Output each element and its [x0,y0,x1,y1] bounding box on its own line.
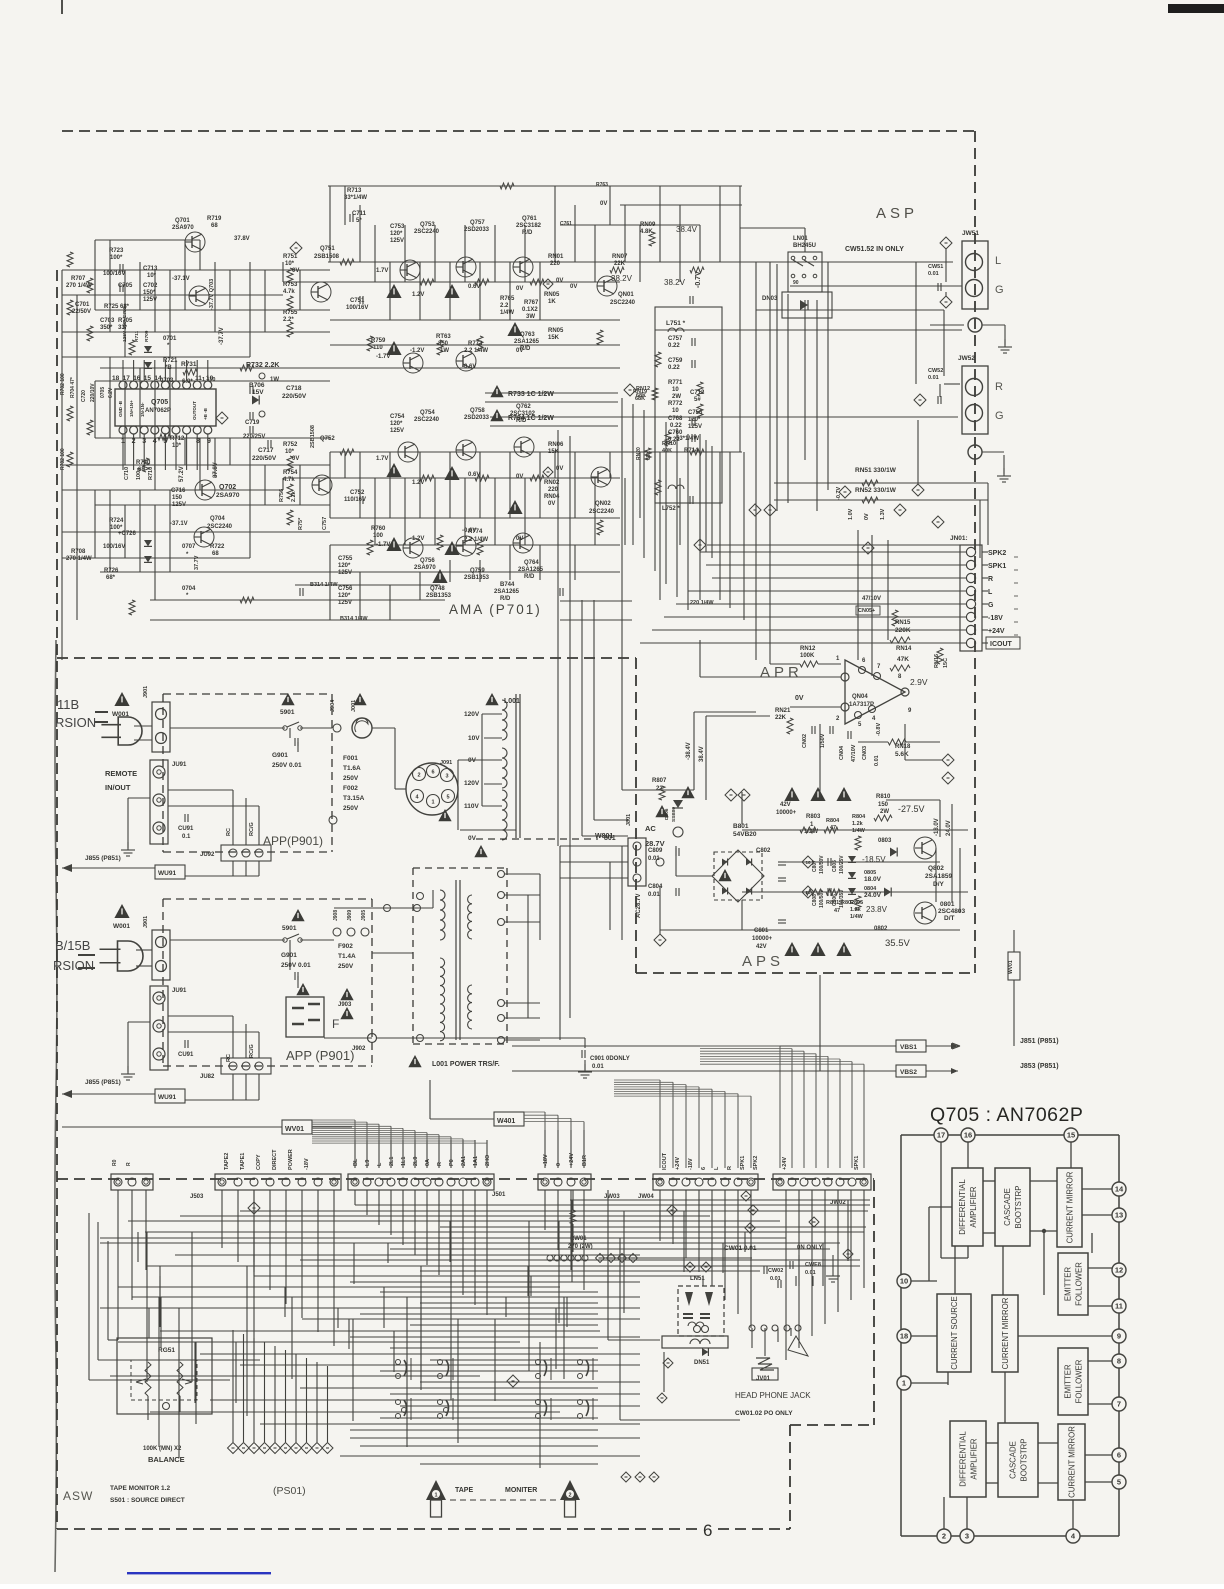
svg-text:R771: R771 [668,380,683,386]
svg-text:R723: R723 [109,248,124,254]
svg-text:OUTOUT: OUTOUT [192,401,197,420]
svg-text:15: 15 [1067,1131,1075,1140]
svg-text:1.2k: 1.2k [852,821,864,827]
svg-text:Q752: Q752 [320,436,335,442]
svg-text:C801: C801 [754,928,769,934]
svg-text:6: 6 [862,658,866,664]
svg-text:0V: 0V [556,278,563,284]
svg-text:8: 8 [1117,1357,1121,1366]
svg-text:120*: 120* [390,231,403,237]
svg-text:SPK1: SPK1 [854,1156,860,1170]
svg-text:4: 4 [153,438,157,445]
svg-text:EMITTER: EMITTER [1064,1364,1073,1399]
svg-text:R755: R755 [283,310,298,316]
svg-text:R722: R722 [210,544,225,550]
svg-text:B/15B: B/15B [55,938,90,953]
svg-text:3: 3 [142,438,146,445]
svg-text:37.8V: 37.8V [213,462,219,478]
svg-text:TAPE2: TAPE2 [224,1153,230,1170]
svg-text:J855 (P851): J855 (P851) [85,855,121,862]
svg-text:JW04: JW04 [638,1194,654,1200]
svg-text:1: 1 [434,1493,437,1499]
svg-text:37.8V: 37.8V [234,236,250,242]
svg-text:14: 14 [1115,1185,1124,1194]
svg-text:16: 16 [133,375,141,382]
svg-text:1: 1 [836,656,840,662]
svg-text:4.7k: 4.7k [283,477,295,483]
svg-text:T1.6A: T1.6A [343,765,361,772]
svg-text:100/50V: 100/50V [819,855,825,874]
svg-text:B801: B801 [733,823,749,830]
svg-text:68: 68 [212,551,219,557]
svg-text:JV01: JV01 [756,1376,771,1382]
svg-text:24.0V: 24.0V [946,820,952,836]
svg-text:JU91: JU91 [172,988,187,994]
svg-text:R773: R773 [468,341,483,347]
svg-text:W801: W801 [595,833,613,840]
svg-text:0V: 0V [795,695,804,702]
svg-text:RN20: RN20 [636,447,642,460]
svg-text:68K: 68K [635,396,645,402]
svg-text:-18V: -18V [304,1158,310,1170]
svg-text:6: 6 [703,1521,712,1540]
svg-text:1K: 1K [548,299,556,305]
svg-text:SPK2: SPK2 [988,550,1006,557]
svg-text:0V: 0V [600,201,607,207]
svg-text:6: 6 [701,1167,707,1170]
svg-text:C759: C759 [668,358,683,364]
svg-text:9: 9 [908,708,912,714]
svg-text:110V: 110V [464,803,479,810]
svg-text:AMPLIFIER: AMPLIFIER [970,1438,979,1480]
svg-text:R713: R713 [347,188,362,194]
svg-text:100K: 100K [800,653,815,659]
svg-text:R/D: R/D [516,418,527,424]
svg-text:100: 100 [373,533,384,539]
svg-text:3W: 3W [526,314,535,320]
svg-text:L001 POWER TRS/F.: L001 POWER TRS/F. [432,1061,500,1068]
svg-text:1/4W: 1/4W [500,310,514,316]
svg-text:350: 350 [438,341,449,347]
svg-text:RN18: RN18 [895,744,911,750]
svg-text:1.2V: 1.2V [412,480,424,486]
svg-text:R732 2.2K: R732 2.2K [246,362,279,369]
svg-text:R/D: R/D [522,230,533,236]
svg-text:LN51: LN51 [690,1276,705,1282]
svg-text:R763: R763 [596,182,608,188]
svg-text:J901: J901 [143,686,149,698]
svg-text:C755: C755 [338,556,353,562]
svg-text:AMA (P701): AMA (P701) [449,602,542,617]
svg-text:0704: 0704 [182,586,196,592]
svg-text:2W: 2W [672,394,681,400]
svg-text:5901: 5901 [280,709,295,716]
svg-text:Q761: Q761 [522,216,537,222]
svg-text:R: R [437,1162,443,1166]
svg-text:D/T: D/T [944,915,955,922]
svg-text:CU91: CU91 [178,1052,194,1058]
svg-text:CW51.52 IN ONLY: CW51.52 IN ONLY [845,246,904,253]
svg-text:F902: F902 [338,943,353,950]
svg-text:RN51 330/1W: RN51 330/1W [855,467,897,474]
svg-text:C807: C807 [812,860,818,872]
svg-text:C705: C705 [118,283,133,289]
svg-text:2L1: 2L1 [389,1157,395,1166]
svg-text:33*1/4W: 33*1/4W [344,195,367,201]
svg-text:1A7317P: 1A7317P [849,702,874,708]
svg-text:JU91: JU91 [172,762,187,768]
svg-text:0V: 0V [516,536,523,542]
svg-text:AC28.7V: AC28.7V [636,894,642,918]
svg-text:SPK1: SPK1 [988,563,1006,570]
svg-text:16: 16 [805,860,811,865]
svg-text:R/D: R/D [500,596,511,602]
svg-text:125V: 125V [338,600,352,606]
svg-text:2SD2033: 2SD2033 [464,227,490,233]
svg-text:DIFFERENTIAL: DIFFERENTIAL [959,1431,968,1487]
svg-text:1.3V: 1.3V [880,508,886,520]
svg-text:TAPE MONITOR 1.2: TAPE MONITOR 1.2 [110,1485,170,1492]
svg-text:2.2 1/4W: 2.2 1/4W [464,348,488,354]
svg-text:0801: 0801 [940,901,955,908]
svg-text:2SA970: 2SA970 [216,492,240,499]
svg-text:AMPLIFIER: AMPLIFIER [969,1186,978,1228]
svg-text:+24V: +24V [988,628,1005,635]
svg-text:B1R: B1R [582,1155,588,1166]
svg-text:10: 10 [672,387,679,393]
svg-text:2SB1508: 2SB1508 [310,425,316,448]
svg-text:1W: 1W [440,348,449,354]
svg-text:5: 5 [858,722,862,728]
svg-text:C702: C702 [143,283,158,289]
svg-text:+B -B: +B -B [203,407,208,420]
svg-text:J903: J903 [338,1002,352,1008]
svg-text:125V 100* C709: 125V 100* C709 [122,306,128,342]
svg-text:CW51: CW51 [928,264,943,270]
svg-text:1: 1 [810,822,814,828]
svg-text:0V: 0V [570,284,577,290]
svg-text:Q754: Q754 [420,410,435,416]
svg-text:10000+: 10000+ [752,936,773,942]
svg-text:R807: R807 [652,778,667,784]
svg-text:CN05+: CN05+ [858,608,875,614]
svg-text:RC/G: RC/G [249,822,255,836]
svg-text:0V: 0V [292,456,299,462]
svg-text:J904: J904 [330,699,336,712]
svg-text:C809: C809 [648,848,663,854]
svg-text:2L0: 2L0 [413,1157,419,1166]
svg-text:1/4W: 1/4W [852,828,866,834]
svg-text:1W: 1W [270,377,279,383]
svg-text:-18V: -18V [543,1154,549,1166]
svg-text:POWER: POWER [288,1149,294,1170]
svg-text:5*: 5* [356,218,362,224]
svg-text:C808: C808 [812,894,818,906]
svg-text:COPY: COPY [256,1154,262,1170]
svg-text:-18.5V: -18.5V [862,855,886,864]
svg-text:18: 18 [900,1332,908,1341]
svg-text:G901: G901 [281,952,297,959]
svg-text:2SB1353: 2SB1353 [426,593,452,599]
svg-text:Q764: Q764 [524,560,539,566]
svg-text:RN52 330/1W: RN52 330/1W [855,487,897,494]
svg-text:CW01 0.01: CW01 0.01 [724,1245,757,1252]
svg-text:1N+1N+: 1N+1N+ [129,400,134,417]
svg-text:J902: J902 [352,1046,366,1052]
svg-text:RSION: RSION [53,958,94,973]
svg-text:TAPE: TAPE [455,1487,473,1494]
svg-text:0V: 0V [556,466,563,472]
svg-text:RG51: RG51 [158,1347,175,1354]
svg-text:C710: C710 [124,467,130,480]
svg-text:-37.7V Q703: -37.7V Q703 [209,279,215,310]
svg-text:4: 4 [415,795,419,801]
svg-text:R754: R754 [283,470,298,476]
svg-text:0N ONLY: 0N ONLY [797,1245,822,1251]
svg-text:R0: R0 [112,1159,118,1166]
svg-text:250V: 250V [338,963,354,970]
svg-text:C753: C753 [390,224,405,230]
svg-text:-0.8V: -0.8V [876,723,882,736]
svg-text:W401: W401 [497,1118,515,1125]
svg-text:100/35V: 100/35V [839,889,845,908]
svg-text:R759: R759 [371,338,386,344]
svg-text:16: 16 [964,1131,972,1140]
svg-text:R803: R803 [806,814,821,820]
svg-text:+24V: +24V [782,1157,788,1170]
svg-text:RT63: RT63 [436,334,451,340]
svg-text:100/16V: 100/16V [103,544,125,550]
svg-text:FOLLOWER: FOLLOWER [1075,1359,1084,1403]
svg-text:1N-1N-: 1N-1N- [140,402,145,417]
svg-text:0.22: 0.22 [670,423,682,429]
svg-text:ICOUT: ICOUT [990,641,1013,648]
svg-text:120*: 120* [338,563,351,569]
svg-text:Q701: Q701 [175,218,190,224]
svg-text:1.0V: 1.0V [848,508,854,520]
svg-text:R711: R711 [134,330,140,342]
svg-text:R767: R767 [524,300,539,306]
svg-text:0.01: 0.01 [648,856,660,862]
svg-text:AC: AC [645,824,656,833]
svg-text:2SC2240: 2SC2240 [610,300,636,306]
svg-text:220 1/4W: 220 1/4W [690,600,714,606]
svg-text:57.2V: 57.2V [179,466,185,482]
svg-text:Q748: Q748 [430,586,445,592]
svg-text:0V: 0V [516,474,523,480]
svg-text:40K: 40K [662,448,672,454]
svg-text:1/4W: 1/4W [850,914,864,920]
svg-text:JU82: JU82 [200,1074,215,1080]
svg-text:CN03: CN03 [862,746,868,760]
svg-text:B314 1/4W: B314 1/4W [310,582,338,588]
svg-text:WU91: WU91 [158,870,176,877]
svg-text:2.9V: 2.9V [910,677,928,687]
svg-text:J909: J909 [347,910,353,921]
svg-text:J905: J905 [361,910,367,921]
svg-text:0.01: 0.01 [770,1276,781,1282]
svg-text:C901 0DONLY: C901 0DONLY [590,1056,630,1062]
svg-text:Q762: Q762 [516,404,531,410]
svg-text:T1.4A: T1.4A [338,953,356,960]
svg-text:C751: C751 [350,298,365,304]
svg-text:0V: 0V [864,513,870,520]
svg-text:38.4V: 38.4V [676,225,698,234]
svg-text:R772: R772 [668,401,683,407]
svg-text:10*: 10* [147,273,157,279]
svg-text:28.7V: 28.7V [645,839,665,848]
svg-text:100/50V: 100/50V [819,889,825,908]
svg-text:R719: R719 [207,216,222,222]
svg-text:BOOTSTRP: BOOTSTRP [1014,1186,1023,1229]
svg-text:15: 15 [144,375,152,382]
svg-text:*: * [186,593,189,599]
svg-text:0.01: 0.01 [648,892,660,898]
svg-text:0A: 0A [425,1159,431,1166]
svg-text:17: 17 [937,1131,945,1140]
svg-text:BALANCE: BALANCE [148,1455,185,1464]
svg-text:100/16V: 100/16V [103,271,125,277]
svg-text:T3.15A: T3.15A [343,795,365,802]
svg-text:ASW: ASW [63,1489,93,1503]
svg-text:2: 2 [568,1493,571,1499]
svg-text:125V: 125V [172,502,186,508]
svg-text:+24V: +24V [569,1153,575,1166]
svg-text:CURRENT MIRROR: CURRENT MIRROR [1066,1171,1075,1243]
svg-text:DIRECT: DIRECT [272,1149,278,1170]
svg-text:0803: 0803 [878,838,892,844]
svg-text:J503: J503 [190,1194,204,1200]
svg-text:WV01: WV01 [1008,960,1014,974]
svg-text:0: 0 [556,1163,562,1166]
svg-text:C754: C754 [390,414,405,420]
svg-text:C719: C719 [245,420,260,426]
svg-text:4: 4 [872,716,876,722]
svg-text:RC/G: RC/G [249,1044,255,1058]
svg-text:100/16V: 100/16V [346,305,368,311]
svg-text:G: G [988,602,994,609]
svg-text:100*: 100* [110,255,123,261]
svg-text:5.6K: 5.6K [895,751,909,758]
svg-text:6: 6 [1117,1451,1121,1460]
svg-text:R708: R708 [71,549,86,555]
svg-text:0.6V: 0.6V [468,472,480,478]
svg-text:10V: 10V [468,735,480,742]
svg-text:1L1: 1L1 [401,1157,407,1166]
svg-text:L: L [714,1166,720,1170]
svg-text:D806: D806 [664,808,670,820]
svg-text:R714: R714 [684,448,699,454]
svg-text:Q751: Q751 [320,246,335,252]
svg-text:R/D: R/D [524,574,535,580]
svg-text:2: 2 [942,1532,946,1541]
svg-text:QN01: QN01 [618,292,634,298]
svg-text:2SC3182: 2SC3182 [516,223,542,229]
svg-text:ICOUT: ICOUT [662,1152,668,1170]
svg-text:5#: 5# [694,397,701,403]
svg-text:AN7062P: AN7062P [145,408,171,414]
svg-text:2SB1508: 2SB1508 [314,254,340,260]
svg-text:RN15: RN15 [895,620,911,626]
svg-text:8: 8 [898,674,902,680]
svg-text:R756: R756 [279,489,285,502]
svg-text:C718: C718 [286,385,302,392]
svg-text:0V: 0V [468,835,477,842]
svg-text:APR: APR [760,664,803,681]
svg-text:JU92: JU92 [200,852,215,858]
svg-text:-1.2V: -1.2V [410,536,424,542]
svg-text:0705: 0705 [100,387,106,398]
svg-text:G: G [995,410,1004,422]
svg-text:R753: R753 [283,282,298,288]
svg-text:0.01: 0.01 [874,755,880,766]
svg-text:-0.7V: -0.7V [836,487,842,500]
svg-text:R: R [727,1166,733,1170]
svg-text:CN02: CN02 [802,734,808,748]
svg-text:IN/OUT: IN/OUT [105,783,131,792]
svg-text:13: 13 [1115,1211,1123,1220]
svg-text:2.2k: 2.2k [291,490,297,502]
svg-text:0.22: 0.22 [668,437,680,443]
svg-text:-27.5V: -27.5V [898,804,925,814]
svg-text:R731: R731 [181,361,197,368]
svg-text:CU91: CU91 [178,826,194,832]
svg-text:2A1: 2A1 [461,1156,467,1166]
svg-text:120*: 120* [390,421,403,427]
svg-text:C720: C720 [81,390,87,402]
svg-text:Q702: Q702 [219,484,236,491]
svg-text:Q756: Q756 [420,558,435,564]
svg-text:250V 0.01: 250V 0.01 [272,762,302,769]
svg-text:C713: C713 [143,266,158,272]
svg-text:Q705 : AN7062P: Q705 : AN7062P [930,1104,1083,1126]
svg-text:47/10V: 47/10V [851,744,857,762]
svg-text:RN09: RN09 [640,222,656,228]
svg-text:120V: 120V [464,780,480,787]
svg-text:10: 10 [900,1277,908,1286]
svg-text:22/50V: 22/50V [72,309,91,315]
svg-text:L9: L9 [365,1160,371,1166]
svg-text:JW52: JW52 [958,355,975,362]
svg-text:CWE8: CWE8 [805,1262,821,1268]
svg-text:54VB20: 54VB20 [733,831,757,838]
svg-text:2SC2240: 2SC2240 [414,229,440,235]
svg-text:B744: B744 [500,582,515,588]
svg-text:-1.2V: -1.2V [410,348,424,354]
svg-text:RN07: RN07 [612,254,628,260]
svg-text:2SD2033: 2SD2033 [464,415,490,421]
svg-text:18: 18 [112,375,120,382]
svg-text:5: 5 [1117,1478,1121,1487]
svg-text:C703: C703 [100,318,115,324]
svg-text:J851 (P851): J851 (P851) [1020,1038,1059,1045]
svg-text:68: 68 [211,223,218,229]
svg-text:CURRENT SOURCE: CURRENT SOURCE [950,1296,959,1370]
svg-text:7: 7 [1117,1400,1121,1409]
svg-text:270 1/4W: 270 1/4W [66,556,92,562]
svg-text:R726: R726 [104,568,119,574]
svg-text:220/10V: 220/10V [90,383,96,402]
svg-text:250V: 250V [343,775,359,782]
svg-text:37.7V: 37.7V [194,555,200,570]
svg-text:R: R [995,381,1003,393]
svg-text:C716: C716 [171,488,186,494]
svg-text:10*: 10* [285,261,295,267]
svg-text:R710: R710 [148,467,154,480]
svg-text:D/Y: D/Y [933,881,945,888]
svg-text:P0: P0 [449,1159,455,1166]
svg-text:C805: C805 [832,860,838,872]
